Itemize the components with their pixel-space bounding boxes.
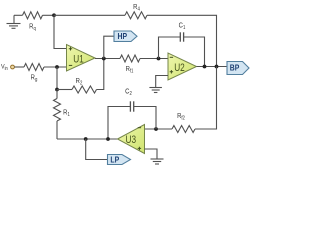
- wire Rg to U1 - input: [44, 66, 67, 68]
- label R4: [133, 3, 140, 12]
- capacitor C1: [180, 32, 183, 41]
- node F junction (C1 to BP line): [203, 65, 207, 69]
- wire U3 output line: [57, 138, 118, 140]
- svg-text:LP: LP: [110, 155, 119, 165]
- op-amp U3 (points left): [118, 125, 145, 154]
- resistor Rf1: [120, 55, 140, 62]
- svg-text:U3: U3: [126, 134, 137, 146]
- wire C2 left leg down to U3 output line: [108, 107, 130, 140]
- node E junction (U2 inverting input): [157, 57, 161, 61]
- wire C1 right leg down to U2 output: [184, 37, 205, 67]
- label C2: [125, 88, 132, 97]
- ground G2 (below U2): [149, 88, 162, 93]
- Vin terminal: [11, 65, 15, 69]
- label Rf1: [126, 65, 134, 74]
- wire ground to Rq: [14, 14, 23, 16]
- wire node A down to U1 + input: [54, 15, 67, 48]
- resistor R4: [125, 12, 147, 19]
- node J junction (LP tap): [84, 137, 88, 141]
- node D junction (U1 output / HP tap): [102, 57, 106, 61]
- label Rq: [29, 23, 36, 32]
- wire node B down to R2/R1 node: [56, 67, 58, 90]
- wire R4 down to BP node: [147, 15, 217, 66]
- label C1: [179, 22, 186, 31]
- label Rg: [31, 74, 38, 83]
- capacitor C2: [130, 101, 133, 111]
- wire U2 + input to ground: [156, 76, 168, 88]
- wire Rf1 to U2 - input: [140, 58, 168, 60]
- wire HP tap: [104, 36, 114, 58]
- label Vin: [1, 63, 8, 71]
- label R2: [76, 77, 83, 86]
- wire Rf2 to U3 - input: [145, 128, 173, 130]
- wire node A to R4: [54, 14, 125, 16]
- wire Rq to node A: [43, 14, 55, 16]
- node C junction (R2/R1): [55, 88, 59, 92]
- resistor R1: [54, 99, 61, 122]
- wire R2 up to U1 output: [97, 59, 104, 90]
- resistor Rq: [23, 12, 43, 19]
- svg-text:U2: U2: [174, 62, 185, 74]
- wire Vin to Rg: [14, 66, 24, 68]
- wire LP tap: [86, 139, 108, 160]
- LP output flag: [108, 155, 131, 165]
- ground G3 (below U3): [151, 159, 164, 164]
- svg-text:BP: BP: [230, 63, 240, 73]
- node I junction (C2 to U3 output line): [106, 137, 110, 141]
- wire node C down to R1: [56, 90, 58, 99]
- resistor Rg: [24, 64, 44, 71]
- wire U2 output to BP: [197, 66, 228, 68]
- node G junction (R4/Rf2 to BP line): [215, 65, 219, 69]
- node H junction (U3 inverting input / C2): [154, 127, 158, 131]
- wire BP node down to Rf2: [195, 67, 217, 130]
- BP output flag: [227, 62, 249, 75]
- op-amp U2: [168, 53, 197, 80]
- wire U3 + input to ground: [145, 149, 158, 159]
- svg-text:U1: U1: [73, 53, 84, 65]
- wire R1 down to LP line: [56, 121, 58, 139]
- label Rf2: [177, 112, 185, 121]
- ground G1 (top left): [7, 15, 21, 28]
- resistor Rf2: [172, 126, 195, 133]
- svg-text:HP: HP: [118, 31, 128, 41]
- wire C2 right leg: [134, 107, 156, 130]
- node A junction: [52, 13, 56, 17]
- resistor R2: [72, 86, 97, 93]
- op-amp U1: [67, 45, 96, 72]
- node B junction (U1 inverting input): [55, 65, 59, 69]
- wire C1 left leg: [159, 37, 181, 59]
- HP output flag: [114, 31, 137, 42]
- label R1: [63, 109, 70, 118]
- wire node C to R2: [57, 89, 72, 91]
- wire U1 output: [95, 58, 120, 60]
